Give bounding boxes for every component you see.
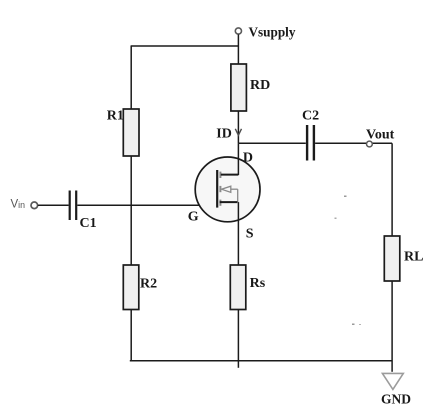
svg-text:S: S — [246, 226, 254, 241]
svg-text:RL: RL — [404, 249, 423, 264]
svg-text:Vin: Vin — [11, 199, 26, 211]
wire source vertical — [237, 202, 239, 265]
wire Rs bottom — [237, 310, 239, 368]
resistor RD — [231, 64, 247, 111]
node drain wire to C2 — [238, 142, 305, 144]
wire top horizontal — [131, 45, 239, 47]
wire C2 to corner — [315, 142, 392, 144]
channel tick top — [219, 172, 221, 178]
svg-text:Vsupply: Vsupply — [249, 24, 296, 39]
wire R1 to R2 — [130, 156, 132, 265]
ID arrow — [235, 129, 241, 136]
wire R2 bottom — [130, 310, 132, 362]
wire RL to ground — [391, 281, 393, 372]
wire Vin to C1 — [38, 204, 69, 206]
capacitor C1 — [69, 191, 71, 221]
svg-text:RD: RD — [250, 78, 270, 93]
wire drain vertical — [237, 143, 239, 175]
svg-text:D: D — [243, 151, 253, 166]
Vout terminal — [367, 141, 373, 147]
ground GND symbol — [382, 373, 403, 389]
svg-text:GND: GND — [381, 391, 411, 406]
svg-text:G: G — [188, 209, 199, 224]
Vsupply terminal — [235, 28, 241, 34]
svg-text:ID: ID — [216, 126, 232, 141]
wire C1 to gate — [77, 204, 217, 206]
channel tick bottom — [219, 200, 221, 206]
resistor Rs — [230, 265, 246, 310]
svg-text:C2: C2 — [302, 109, 319, 124]
drain connector — [221, 174, 239, 176]
substrate arrow — [221, 186, 230, 192]
svg-text:Vout: Vout — [366, 128, 395, 143]
wire RD to drain node — [237, 111, 239, 143]
svg-text:Rs: Rs — [250, 276, 266, 291]
wire R1 top — [130, 46, 132, 110]
svg-text:R1: R1 — [107, 109, 124, 124]
wire bottom rail — [130, 360, 392, 362]
svg-text:R2: R2 — [140, 277, 157, 292]
source connector — [220, 201, 238, 203]
channel tick middle — [219, 186, 221, 192]
resistor R2 — [123, 265, 139, 310]
wire right vertical to RL — [391, 143, 393, 236]
svg-text:C1: C1 — [80, 216, 97, 231]
resistor RL — [384, 236, 400, 281]
transistor Q1 gate bar — [216, 170, 218, 208]
op-amp: MOSFET body circle Q1 — [195, 157, 260, 222]
capacitor C2 — [306, 125, 308, 161]
speckle artifacts — [344, 196, 347, 198]
resistor R1 — [123, 109, 139, 156]
Vin terminal — [31, 202, 38, 209]
wire Vsupply to RD — [237, 34, 239, 64]
